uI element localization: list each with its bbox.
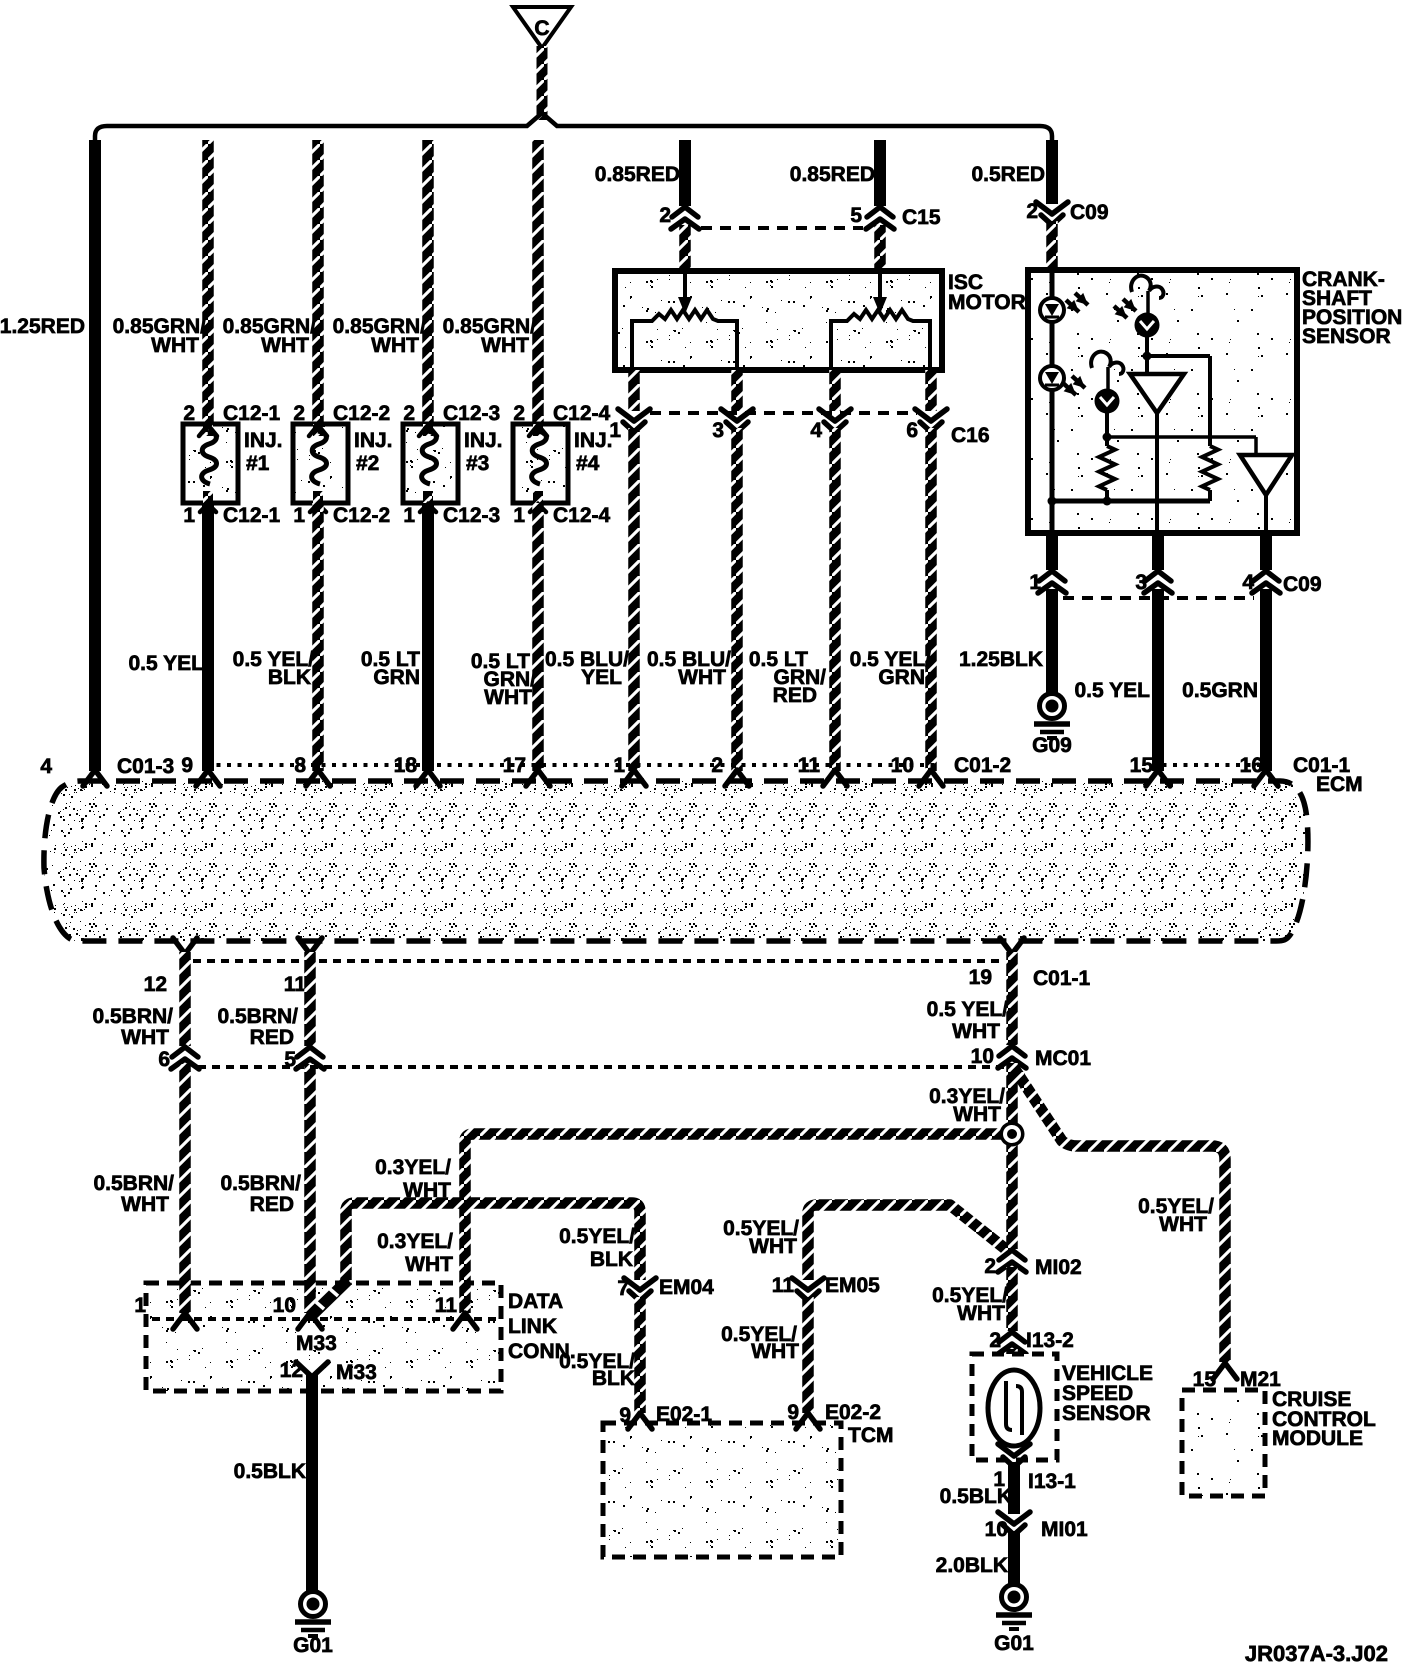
svg-text:G01: G01 <box>293 1634 333 1657</box>
svg-text:0.5BRN/: 0.5BRN/ <box>220 1172 301 1195</box>
svg-text:C15: C15 <box>902 206 941 229</box>
svg-text:1: 1 <box>293 504 305 527</box>
svg-text:C01-1: C01-1 <box>1033 967 1091 990</box>
svg-text:16: 16 <box>1240 754 1263 777</box>
svg-text:WHT: WHT <box>953 1103 1001 1126</box>
svg-text:2.0BLK: 2.0BLK <box>936 1554 1008 1577</box>
svg-text:1: 1 <box>403 504 415 527</box>
svg-text:DATA: DATA <box>508 1290 563 1313</box>
svg-text:15: 15 <box>1130 754 1154 777</box>
svg-text:0.3YEL/: 0.3YEL/ <box>377 1230 453 1253</box>
svg-text:M33: M33 <box>296 1332 337 1355</box>
svg-text:INJ.: INJ. <box>354 429 393 452</box>
svg-text:0.5BRN/: 0.5BRN/ <box>217 1005 298 1028</box>
svg-text:12: 12 <box>280 1359 303 1382</box>
svg-text:#3: #3 <box>466 452 489 475</box>
svg-text:11: 11 <box>284 973 307 996</box>
svg-text:WHT: WHT <box>371 334 419 357</box>
svg-text:4: 4 <box>40 755 52 778</box>
svg-text:BLK: BLK <box>590 1248 633 1271</box>
svg-text:SENSOR: SENSOR <box>1302 325 1391 348</box>
svg-text:2: 2 <box>293 402 305 425</box>
svg-text:MOTOR: MOTOR <box>948 291 1026 314</box>
svg-text:C12-4: C12-4 <box>553 504 611 527</box>
svg-text:2: 2 <box>513 402 525 425</box>
svg-text:WHT: WHT <box>957 1302 1005 1325</box>
svg-text:RED: RED <box>250 1193 294 1216</box>
svg-text:18: 18 <box>394 754 418 777</box>
svg-text:WHT: WHT <box>952 1020 1000 1043</box>
svg-text:0.5BRN/: 0.5BRN/ <box>93 1172 174 1195</box>
svg-text:9: 9 <box>787 1401 799 1424</box>
svg-text:RED: RED <box>250 1026 294 1049</box>
svg-text:E02-2: E02-2 <box>825 1401 881 1424</box>
svg-text:17: 17 <box>503 754 526 777</box>
svg-text:C: C <box>534 17 549 40</box>
svg-text:#4: #4 <box>576 452 600 475</box>
svg-text:LINK: LINK <box>508 1315 557 1338</box>
svg-text:0.5BLK: 0.5BLK <box>234 1460 306 1483</box>
svg-text:BLK: BLK <box>268 666 311 689</box>
svg-text:ECM: ECM <box>1316 773 1363 796</box>
svg-text:C12-1: C12-1 <box>223 504 281 527</box>
svg-text:0.85RED: 0.85RED <box>790 163 875 186</box>
svg-text:0.5 YEL/: 0.5 YEL/ <box>927 998 1008 1021</box>
svg-text:10: 10 <box>985 1518 1008 1541</box>
svg-text:9: 9 <box>181 754 193 777</box>
svg-text:0.5YEL/: 0.5YEL/ <box>559 1225 635 1248</box>
svg-text:0.5 YEL: 0.5 YEL <box>1075 679 1151 702</box>
svg-text:1: 1 <box>609 419 621 442</box>
svg-text:1: 1 <box>183 504 195 527</box>
svg-text:RED: RED <box>773 684 817 707</box>
svg-text:WHT: WHT <box>151 334 199 357</box>
svg-text:C01-2: C01-2 <box>954 754 1011 777</box>
svg-text:TCM: TCM <box>848 1424 894 1447</box>
svg-text:0.5RED: 0.5RED <box>971 163 1045 186</box>
svg-text:WHT: WHT <box>1159 1213 1207 1236</box>
svg-text:3: 3 <box>1135 571 1147 594</box>
svg-text:1: 1 <box>513 504 525 527</box>
svg-text:BLK: BLK <box>592 1367 635 1390</box>
svg-text:#1: #1 <box>246 452 270 475</box>
svg-text:WHT: WHT <box>121 1026 169 1049</box>
svg-text:C12-3: C12-3 <box>443 504 500 527</box>
svg-text:C09: C09 <box>1070 201 1109 224</box>
svg-text:7: 7 <box>617 1277 629 1300</box>
svg-text:2: 2 <box>711 754 723 777</box>
svg-text:INJ.: INJ. <box>244 429 283 452</box>
svg-text:E02-1: E02-1 <box>656 1403 712 1426</box>
svg-text:MC01: MC01 <box>1035 1047 1091 1070</box>
svg-text:2: 2 <box>659 204 671 227</box>
svg-text:2: 2 <box>1026 200 1038 223</box>
svg-text:MI02: MI02 <box>1035 1256 1082 1279</box>
svg-text:2: 2 <box>984 1255 996 1278</box>
svg-text:0.5GRN: 0.5GRN <box>1182 679 1258 702</box>
svg-text:C12-2: C12-2 <box>333 504 390 527</box>
svg-text:C09: C09 <box>1283 573 1322 596</box>
svg-text:C12-1: C12-1 <box>223 402 281 425</box>
svg-text:I13-1: I13-1 <box>1028 1470 1076 1493</box>
svg-text:INJ.: INJ. <box>574 429 613 452</box>
svg-text:4: 4 <box>1242 571 1254 594</box>
svg-text:1: 1 <box>613 754 625 777</box>
svg-text:6: 6 <box>906 419 918 442</box>
svg-text:5: 5 <box>850 204 862 227</box>
svg-text:G09: G09 <box>1032 734 1072 757</box>
svg-text:WHT: WHT <box>749 1235 797 1258</box>
svg-text:1.25RED: 1.25RED <box>0 315 85 338</box>
svg-text:GRN: GRN <box>373 666 420 689</box>
svg-text:JR037A-3.J02: JR037A-3.J02 <box>1245 1641 1388 1666</box>
svg-text:10: 10 <box>273 1294 296 1317</box>
svg-text:10: 10 <box>971 1045 994 1068</box>
svg-text:WHT: WHT <box>121 1193 169 1216</box>
svg-text:11: 11 <box>435 1294 458 1317</box>
svg-text:MODULE: MODULE <box>1272 1427 1363 1450</box>
svg-text:0.3YEL/: 0.3YEL/ <box>375 1156 451 1179</box>
svg-text:G01: G01 <box>994 1632 1034 1655</box>
svg-text:9: 9 <box>619 1404 631 1427</box>
svg-text:C12-3: C12-3 <box>443 402 500 425</box>
svg-text:1: 1 <box>1029 571 1041 594</box>
svg-text:I13-2: I13-2 <box>1026 1329 1074 1352</box>
svg-text:11: 11 <box>772 1274 795 1297</box>
svg-text:WHT: WHT <box>484 686 532 709</box>
svg-text:3: 3 <box>712 419 724 442</box>
svg-text:WHT: WHT <box>481 334 529 357</box>
svg-text:WHT: WHT <box>405 1253 453 1276</box>
svg-text:WHT: WHT <box>261 334 309 357</box>
svg-text:GRN: GRN <box>878 666 925 689</box>
svg-text:MI01: MI01 <box>1041 1518 1088 1541</box>
svg-text:1: 1 <box>134 1294 146 1317</box>
svg-text:2: 2 <box>403 402 415 425</box>
svg-text:6: 6 <box>158 1048 170 1071</box>
svg-text:1.25BLK: 1.25BLK <box>959 648 1043 671</box>
svg-text:0.85RED: 0.85RED <box>595 163 680 186</box>
svg-text:M33: M33 <box>336 1361 377 1384</box>
svg-text:0.5BLK: 0.5BLK <box>940 1485 1012 1508</box>
svg-text:4: 4 <box>810 419 822 442</box>
svg-text:C01-3: C01-3 <box>117 755 174 778</box>
svg-text:SENSOR: SENSOR <box>1062 1402 1151 1425</box>
svg-text:WHT: WHT <box>751 1340 799 1363</box>
svg-text:12: 12 <box>144 973 167 996</box>
svg-text:2: 2 <box>183 402 195 425</box>
svg-text:11: 11 <box>798 754 821 777</box>
svg-text:#2: #2 <box>356 452 379 475</box>
svg-text:8: 8 <box>294 754 306 777</box>
svg-text:C12-2: C12-2 <box>333 402 390 425</box>
svg-text:2: 2 <box>989 1329 1001 1352</box>
svg-text:EM05: EM05 <box>825 1274 880 1297</box>
svg-text:10: 10 <box>891 754 914 777</box>
svg-text:YEL: YEL <box>581 666 622 689</box>
svg-text:19: 19 <box>969 966 992 989</box>
svg-text:EM04: EM04 <box>659 1276 714 1299</box>
svg-text:0.5BRN/: 0.5BRN/ <box>92 1005 173 1028</box>
svg-text:C12-4: C12-4 <box>553 402 611 425</box>
svg-text:0.5 YEL: 0.5 YEL <box>129 652 205 675</box>
svg-text:INJ.: INJ. <box>464 429 503 452</box>
svg-text:C16: C16 <box>951 424 990 447</box>
svg-text:WHT: WHT <box>678 666 726 689</box>
